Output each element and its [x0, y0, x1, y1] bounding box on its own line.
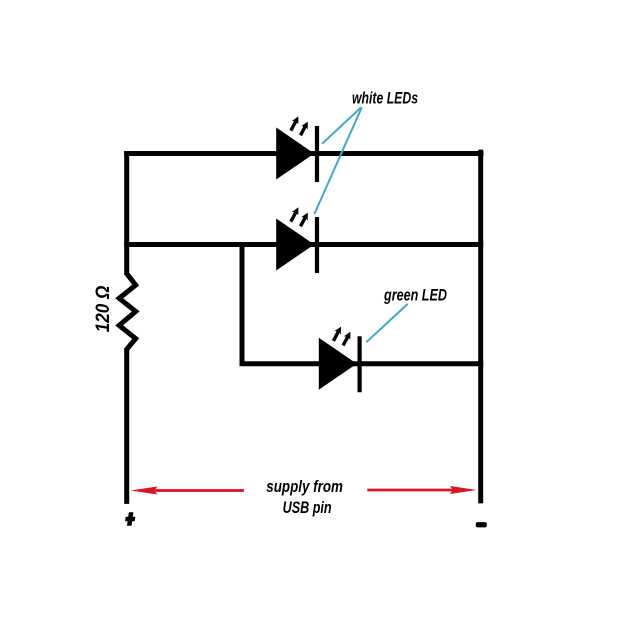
- plus terminal symbol: [124, 512, 136, 525]
- supply arrow left (red): [155, 489, 244, 492]
- wire right rail down to - terminal: [478, 150, 483, 504]
- callout line from label to D3: [366, 304, 408, 342]
- minus terminal symbol: [476, 522, 487, 527]
- callout line from label to D1: [322, 107, 361, 144]
- wire left rail lower segment to + terminal: [124, 348, 129, 504]
- LED D3 green (bottom): [319, 327, 360, 393]
- svg-text:green LED: green LED: [383, 286, 447, 305]
- svg-text:white LEDs: white LEDs: [352, 89, 418, 108]
- supply arrow right (red): [367, 489, 453, 492]
- wire middle rail (left rail to D2 / right rail): [124, 242, 483, 247]
- wire top rail (node + to D1 anode / right rail): [124, 151, 483, 156]
- wire bottom branch rail (to D3 and right rail): [240, 361, 484, 366]
- LED D1 white (top): [276, 116, 317, 182]
- LED D2 white (middle): [276, 207, 317, 273]
- svg-text:supply from: supply from: [266, 477, 343, 496]
- resistor R1 zigzag body: [119, 274, 136, 350]
- svg-text:120 Ω: 120 Ω: [93, 285, 114, 332]
- wire left rail upper segment: [124, 151, 129, 275]
- wire branch from middle rail down to D3: [240, 242, 245, 364]
- svg-text:USB pin: USB pin: [283, 498, 332, 517]
- callout line from label to D2: [314, 107, 361, 214]
